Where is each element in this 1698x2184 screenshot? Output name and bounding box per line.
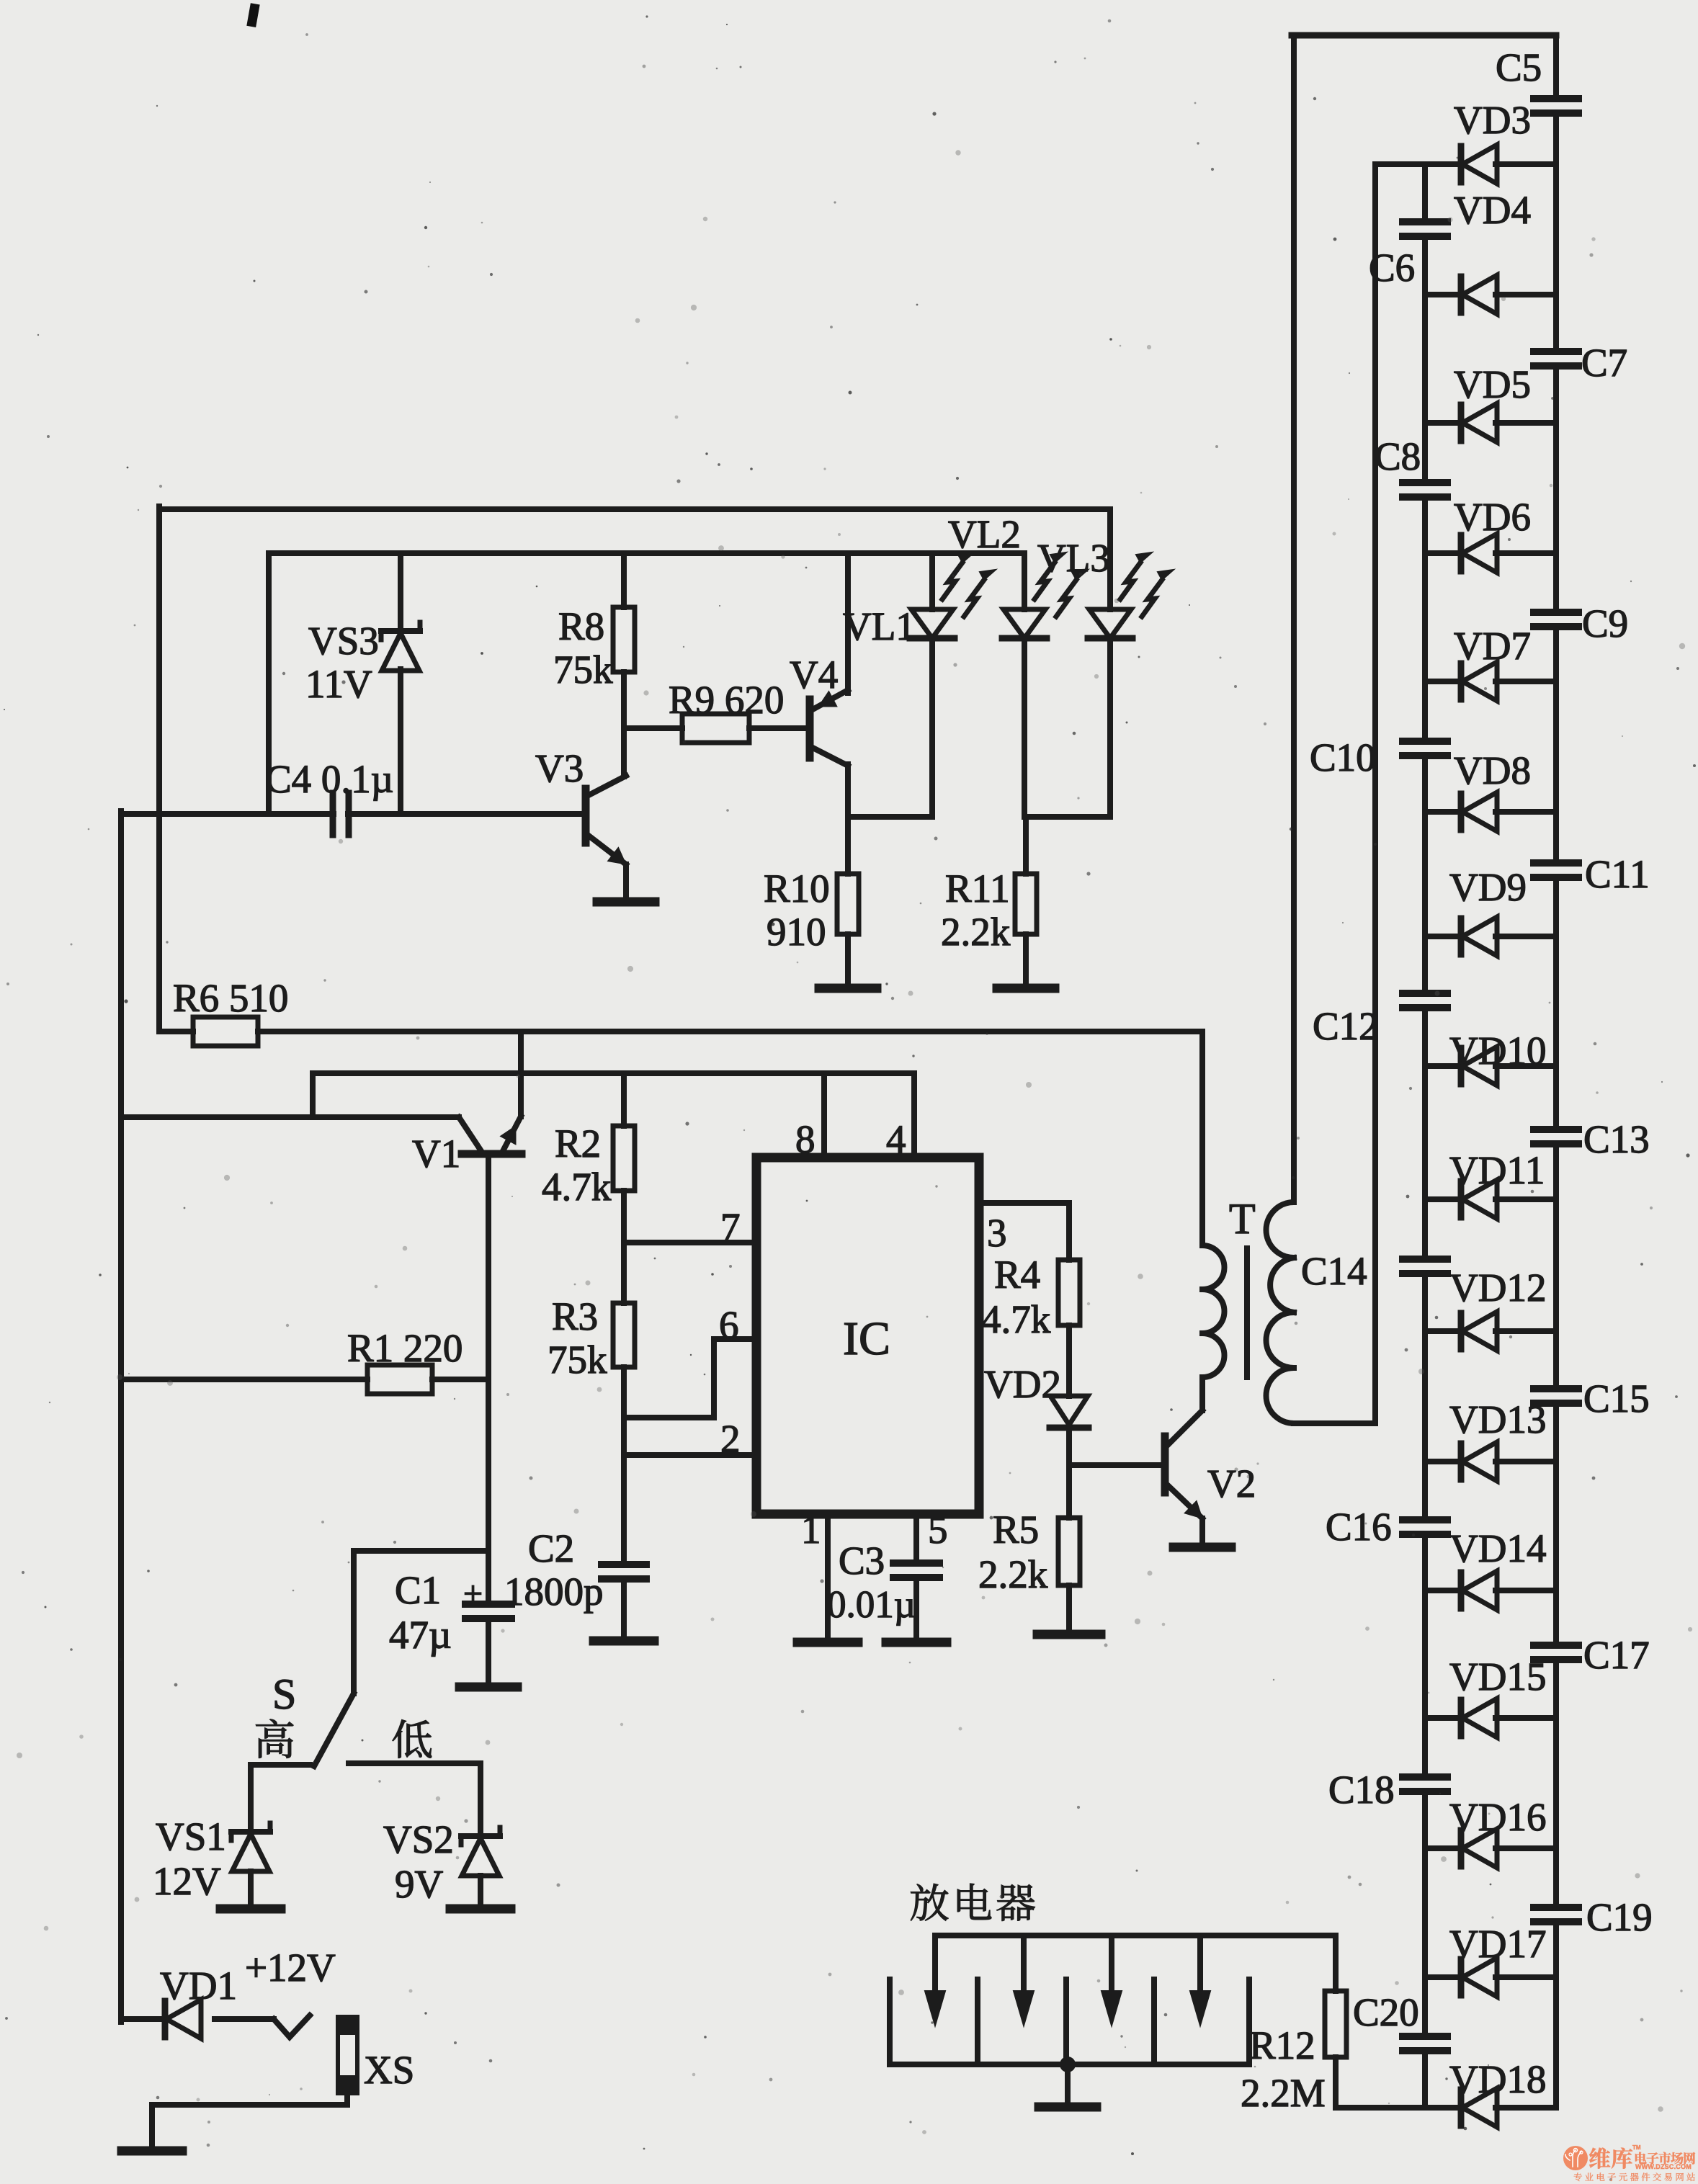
wire node to V2 base (y2034) xyxy=(1069,1462,1162,1468)
label R4 4.7k xyxy=(981,1253,1051,1341)
svg-text:C10: C10 xyxy=(1310,735,1376,779)
op-amp IC box xyxy=(756,1158,979,1514)
capacitor C14 xyxy=(1403,1259,1447,1274)
label C11 xyxy=(1585,852,1650,896)
pin 1 label xyxy=(801,1508,821,1552)
svg-text:VD16: VD16 xyxy=(1449,1795,1546,1839)
resistor R3 xyxy=(613,1303,635,1367)
capacitor C8 xyxy=(1403,483,1447,497)
svg-text:IC: IC xyxy=(843,1312,890,1365)
ground VS2 xyxy=(450,1905,511,1914)
wire primary top x1669 xyxy=(1199,1031,1205,1245)
svg-text:1: 1 xyxy=(801,1508,821,1552)
label C8 xyxy=(1375,434,1421,478)
label S xyxy=(272,1670,296,1718)
label VL3 xyxy=(1037,536,1110,580)
wire R10 top xyxy=(845,817,851,874)
label C10 xyxy=(1310,735,1376,779)
label VD11 xyxy=(1449,1148,1545,1192)
svg-text:C20: C20 xyxy=(1353,1990,1419,2034)
capacitor C6 xyxy=(1403,222,1447,236)
wire ladder top (y49) xyxy=(1292,32,1556,39)
label R8 75k xyxy=(553,604,613,692)
label VD1 xyxy=(160,1964,237,2008)
svg-text:C13: C13 xyxy=(1583,1117,1650,1161)
wire top feed to VL3 (y707) xyxy=(159,506,1110,512)
svg-text:VD12: VD12 xyxy=(1449,1266,1546,1310)
label R11 2.2k xyxy=(941,867,1011,954)
svg-text:V2: V2 xyxy=(1207,1462,1256,1505)
wire pin3 (y1670) xyxy=(979,1200,1069,1206)
led VL3 xyxy=(1088,552,1174,638)
wire secondary bottom xyxy=(1294,1420,1375,1426)
svg-text:VD2: VD2 xyxy=(984,1362,1061,1406)
label R10 910 xyxy=(764,867,830,954)
wire VS3-box left rail x373 xyxy=(266,553,272,814)
label V1 xyxy=(412,1132,460,1176)
label VD6 xyxy=(1454,495,1531,539)
label VS2 9V xyxy=(383,1817,454,1906)
wire ladder bottom (y2926) xyxy=(1336,2105,1556,2111)
label R5 2.2k xyxy=(978,1508,1048,1596)
wire pin5 stub xyxy=(913,1514,919,1563)
capacitor C9 xyxy=(1534,612,1578,627)
capacitor C1 xyxy=(463,1575,511,1619)
resistor R11 xyxy=(1015,874,1037,934)
svg-text:VD4: VD4 xyxy=(1454,188,1531,232)
wire VD16 row xyxy=(1425,1845,1556,1851)
wire XS to ground xyxy=(152,2093,347,2148)
label C4 0.1µ xyxy=(265,757,393,801)
wire VD9 row xyxy=(1425,934,1556,939)
svg-text:C14: C14 xyxy=(1301,1249,1367,1293)
wire VD8 row xyxy=(1425,809,1556,815)
scan mark top-left xyxy=(246,3,259,27)
wire VD12 row xyxy=(1425,1328,1556,1334)
label C12 xyxy=(1313,1004,1379,1048)
svg-text:C3: C3 xyxy=(839,1539,885,1583)
plug tip xyxy=(274,2015,310,2037)
svg-text:R11: R11 xyxy=(945,867,1010,910)
wire secondary top rail x1793 xyxy=(1291,35,1297,1202)
diode VD11 xyxy=(1461,1180,1497,1219)
diode VD15 xyxy=(1461,1699,1497,1737)
svg-text:6: 6 xyxy=(719,1303,739,1347)
resistor R5 xyxy=(1058,1518,1080,1585)
pin 3 label xyxy=(987,1211,1007,1255)
capacitor C16 xyxy=(1403,1520,1447,1534)
diode VD14 xyxy=(1461,1571,1497,1610)
svg-text:WWW.DZSC.COM: WWW.DZSC.COM xyxy=(1635,2163,1692,2170)
svg-text:R3: R3 xyxy=(552,1294,598,1338)
discharger arrows xyxy=(925,1935,1210,2026)
diode VD16 xyxy=(1461,1829,1497,1868)
capacitor C3 xyxy=(893,1563,939,1577)
resistor R12 xyxy=(1325,1991,1346,2057)
svg-text:R2: R2 xyxy=(555,1122,601,1165)
label XS xyxy=(364,2048,414,2092)
svg-text:S: S xyxy=(272,1670,296,1718)
svg-text:VD8: VD8 xyxy=(1454,748,1531,792)
wire right rail x2160 xyxy=(1553,35,1559,2108)
svg-text:TM: TM xyxy=(1632,2144,1641,2151)
wire VD15 row xyxy=(1425,1715,1556,1721)
wire VD13 row xyxy=(1425,1459,1556,1464)
label VD14 xyxy=(1449,1526,1546,1570)
svg-text:VD14: VD14 xyxy=(1449,1526,1546,1570)
switch S arm xyxy=(314,1693,354,1766)
diode VD3 xyxy=(1461,145,1497,184)
label 高 xyxy=(256,1719,293,1758)
diode VD17 xyxy=(1461,1958,1497,1997)
capacitor C10 xyxy=(1403,741,1447,756)
wire discharger bottom (y2866) xyxy=(890,2062,1249,2067)
diode VD4 xyxy=(1461,275,1497,314)
svg-text:VD11: VD11 xyxy=(1449,1148,1545,1192)
wire pin8 stub xyxy=(821,1073,827,1158)
resistor R2 xyxy=(613,1126,635,1191)
svg-text:T: T xyxy=(1229,1195,1256,1243)
wire VD11 row xyxy=(1425,1196,1556,1202)
svg-text:+12V: +12V xyxy=(245,1946,336,1990)
svg-text:C8: C8 xyxy=(1375,434,1421,478)
svg-text:C6: C6 xyxy=(1369,246,1415,290)
capacitor C13 xyxy=(1534,1129,1578,1144)
capacitor C19 xyxy=(1534,1907,1578,1922)
connector XS xyxy=(336,2015,359,2095)
label VD7 xyxy=(1454,624,1531,668)
label VD18 xyxy=(1449,2057,1546,2101)
wire R9 (y1011) xyxy=(624,725,810,731)
transformer T secondary winding xyxy=(1266,1202,1295,1423)
label C17 xyxy=(1583,1633,1650,1677)
label VD8 xyxy=(1454,748,1531,792)
label C16 xyxy=(1326,1505,1392,1549)
diode VD13 xyxy=(1461,1442,1497,1481)
svg-text:V4: V4 xyxy=(790,653,838,697)
label V4 xyxy=(790,653,838,697)
wire R11 bottom xyxy=(1023,934,1029,985)
wire V1 emitter rail x723 xyxy=(518,1031,524,1116)
wire VS1 bottom xyxy=(248,1871,254,1906)
led VL1 xyxy=(910,552,996,638)
label C13 xyxy=(1583,1117,1650,1161)
zener diode VS3 xyxy=(381,622,420,671)
capacitor C2 xyxy=(602,1565,646,1579)
wire R10 bottom xyxy=(845,934,851,985)
diode VD10 xyxy=(1461,1047,1497,1086)
label C20 xyxy=(1353,1990,1419,2034)
label VL1 xyxy=(843,604,916,648)
pin 4 label xyxy=(886,1117,906,1161)
label VD15 xyxy=(1449,1655,1546,1699)
resistor R8 xyxy=(613,607,635,672)
capacitor C5 xyxy=(1534,99,1578,113)
svg-text:C15: C15 xyxy=(1583,1377,1650,1420)
wire VD7 row xyxy=(1425,679,1556,684)
label IC xyxy=(843,1312,890,1365)
capacitor C15 xyxy=(1534,1389,1578,1403)
svg-text:C2: C2 xyxy=(528,1526,574,1570)
wire left rail x168 xyxy=(118,811,124,2022)
svg-text:7: 7 xyxy=(720,1205,741,1249)
wire VL1 anode xyxy=(929,553,935,609)
wire R6 (y1432) xyxy=(159,1029,1202,1034)
wire VL3 anode xyxy=(1107,509,1113,609)
wire contact high (y2450) xyxy=(251,1762,310,1768)
label C3 0.01µ xyxy=(827,1539,916,1626)
label VD3 xyxy=(1454,98,1531,142)
svg-text:R10: R10 xyxy=(764,867,830,910)
wire V1 base to C1 xyxy=(486,1379,491,1604)
label VD13 xyxy=(1449,1397,1546,1441)
ground V2 xyxy=(1174,1543,1231,1552)
resistor R1 xyxy=(367,1365,432,1394)
label C15 xyxy=(1583,1377,1650,1420)
wire pin2 (y2012) xyxy=(624,1452,756,1458)
label VS3 11V xyxy=(305,619,379,706)
svg-text:+: + xyxy=(463,1575,483,1613)
diode VD12 xyxy=(1461,1312,1497,1351)
wire R12 top xyxy=(1333,1935,1339,1991)
svg-text:R4: R4 xyxy=(994,1253,1040,1297)
wire R2-R3 xyxy=(621,1191,627,1303)
resistor R6 xyxy=(193,1017,258,1046)
transformer T core xyxy=(1244,1248,1250,1377)
label C9 xyxy=(1582,601,1628,645)
label C2 1800p xyxy=(504,1526,604,1614)
label 放电器 xyxy=(911,1884,1035,1921)
label VD16 xyxy=(1449,1795,1546,1839)
wire pin7 (y1725) xyxy=(624,1240,756,1245)
node discharger junction xyxy=(1060,2057,1076,2072)
label C6 xyxy=(1369,246,1415,290)
capacitor C7 xyxy=(1534,352,1578,366)
svg-text:12V: 12V xyxy=(153,1859,221,1903)
svg-text:C12: C12 xyxy=(1313,1004,1379,1048)
wire C3 bottom xyxy=(913,1577,919,1639)
transistor V4 xyxy=(810,553,848,817)
svg-text:VD7: VD7 xyxy=(1454,624,1531,668)
resistor R10 xyxy=(837,874,859,934)
label VD9 xyxy=(1449,865,1527,909)
pin 6 label xyxy=(719,1303,739,1347)
wire VD3 row (y228) xyxy=(1375,161,1556,167)
svg-text:C5: C5 xyxy=(1496,45,1542,89)
svg-text:C18: C18 xyxy=(1328,1768,1395,1812)
wire pin4 stub xyxy=(911,1073,917,1158)
svg-text:VS2: VS2 xyxy=(383,1817,454,1861)
label VL2 xyxy=(948,512,1021,556)
transistor V3 xyxy=(586,776,626,899)
pin 7 label xyxy=(720,1205,741,1249)
wire VD14 row xyxy=(1425,1588,1556,1593)
svg-text:5: 5 xyxy=(928,1508,948,1552)
diode VD6 xyxy=(1461,534,1497,573)
svg-text:910: 910 xyxy=(767,910,826,954)
svg-text:C1: C1 xyxy=(395,1568,441,1612)
svg-text:VD17: VD17 xyxy=(1449,1922,1546,1966)
wire R4 to VD2 xyxy=(1066,1325,1072,1396)
svg-text:VD6: VD6 xyxy=(1454,495,1531,539)
svg-text:R9 620: R9 620 xyxy=(669,678,784,722)
label +12V xyxy=(245,1946,336,1990)
svg-text:C17: C17 xyxy=(1583,1633,1650,1677)
svg-text:R5: R5 xyxy=(993,1508,1039,1552)
wire discharger top (y2687) xyxy=(935,1933,1336,1938)
svg-text:75k: 75k xyxy=(553,648,613,692)
capacitor C18 xyxy=(1403,1777,1447,1791)
wire VD5 row xyxy=(1425,420,1556,426)
wire VL3 cathode xyxy=(1107,638,1113,817)
label R3 75k xyxy=(548,1294,607,1382)
wire VD17 row xyxy=(1425,1974,1556,1980)
wire pin1 stub xyxy=(825,1514,831,1639)
svg-text:VL1: VL1 xyxy=(843,604,916,648)
wire to switch (y2153) xyxy=(354,1548,488,1554)
pin 8 label xyxy=(795,1117,816,1161)
label V2 xyxy=(1207,1462,1256,1505)
label R6 510 xyxy=(173,976,288,1020)
wire VD6 row xyxy=(1425,550,1556,556)
wire C2 bottom xyxy=(621,1579,627,1638)
label 低 xyxy=(393,1719,432,1758)
wire VD10 row xyxy=(1425,1063,1556,1069)
wire VS1 branch xyxy=(248,1765,254,1833)
capacitor C20 xyxy=(1403,2036,1447,2051)
svg-text:11V: 11V xyxy=(305,662,372,706)
label VD5 xyxy=(1454,362,1531,406)
wire R12 bottom xyxy=(1333,2057,1339,2108)
svg-text:3: 3 xyxy=(987,1211,1007,1255)
svg-text:VS1: VS1 xyxy=(156,1814,226,1858)
resistor R4 xyxy=(1058,1260,1080,1325)
wire left rail x221 xyxy=(156,506,162,1031)
wire VD1 (y2803) xyxy=(121,2016,274,2022)
wire V4 collector to VL1 (y1134) xyxy=(848,814,932,820)
svg-text:VD9: VD9 xyxy=(1449,865,1527,909)
svg-text:C16: C16 xyxy=(1326,1505,1392,1549)
ground C1 xyxy=(460,1683,517,1692)
wire discharger to ground xyxy=(1065,2064,1071,2104)
label V3 xyxy=(535,746,584,790)
label C19 xyxy=(1586,1895,1653,1939)
svg-text:C11: C11 xyxy=(1585,852,1650,896)
wire node to R5 xyxy=(1066,1465,1072,1518)
ground C2 xyxy=(594,1637,654,1646)
label C18 xyxy=(1328,1768,1395,1812)
diode VD18 xyxy=(1461,2088,1497,2127)
ground C3 xyxy=(886,1638,947,1647)
wire R11 top xyxy=(1023,817,1029,874)
wire C1 bottom xyxy=(486,1619,491,1684)
transistor V2 xyxy=(1165,1377,1202,1544)
wire R3 down to C2 xyxy=(621,1367,627,1565)
wire pin6 xyxy=(624,1339,756,1418)
led VL2 xyxy=(1002,552,1088,638)
svg-text:0.01µ: 0.01µ xyxy=(827,1584,916,1626)
svg-text:C19: C19 xyxy=(1586,1895,1653,1939)
svg-text:VD10: VD10 xyxy=(1449,1029,1546,1073)
ground pin1 xyxy=(797,1638,858,1647)
svg-text:V3: V3 xyxy=(535,746,584,790)
svg-text:75k: 75k xyxy=(548,1338,607,1382)
ground XS xyxy=(122,2147,182,2156)
wire switch riser x491 xyxy=(351,1551,357,1693)
svg-text:XS: XS xyxy=(364,2048,414,2092)
capacitor C11 xyxy=(1534,863,1578,877)
svg-text:4.7k: 4.7k xyxy=(542,1165,612,1209)
wire VD4 row xyxy=(1425,292,1556,297)
pin 2 label xyxy=(720,1417,741,1461)
diode VD1 xyxy=(165,2000,201,2038)
svg-text:4: 4 xyxy=(886,1117,906,1161)
wire pin3 down to R4 xyxy=(1066,1203,1072,1260)
svg-text:R8: R8 xyxy=(558,604,604,648)
watermark 维库电子市场网 xyxy=(1563,2144,1695,2181)
ground R5 xyxy=(1037,1630,1101,1639)
transistor V1 xyxy=(459,1116,522,1379)
svg-text:C4 0.1µ: C4 0.1µ xyxy=(265,757,393,801)
capacitor C4 xyxy=(333,793,349,835)
wire R8 branch x866 xyxy=(621,553,627,777)
label VD4 xyxy=(1454,188,1531,232)
wire VS2 branch xyxy=(478,1763,483,1838)
wire VL2 anode xyxy=(1022,553,1027,609)
diode VD5 xyxy=(1461,403,1497,442)
label R9 620 xyxy=(669,678,784,722)
svg-text:VD1: VD1 xyxy=(160,1964,237,2008)
wire R5 bottom xyxy=(1066,1585,1072,1632)
svg-text:C9: C9 xyxy=(1582,601,1628,645)
diode VD7 xyxy=(1461,662,1497,701)
resistor R9 xyxy=(682,714,749,743)
pin 5 label xyxy=(928,1508,948,1552)
label R2 4.7k xyxy=(542,1122,612,1209)
diode VD9 xyxy=(1461,917,1497,956)
discharger electrodes xyxy=(890,1979,1249,2064)
diode VD8 xyxy=(1461,792,1497,831)
capacitor C12 xyxy=(1403,993,1447,1008)
svg-text:R12: R12 xyxy=(1249,2023,1315,2067)
svg-text:VL3: VL3 xyxy=(1037,536,1110,580)
svg-text:47µ: 47µ xyxy=(389,1613,452,1657)
capacitor C17 xyxy=(1534,1645,1578,1660)
zener diode VS2 xyxy=(461,1827,500,1876)
wire to V1 collector (y1551) xyxy=(121,1114,459,1120)
ground discharger xyxy=(1039,2103,1096,2112)
wire VD2 to node xyxy=(1066,1428,1072,1465)
zener diode VS1 xyxy=(231,1823,270,1871)
svg-text:8: 8 xyxy=(795,1117,816,1161)
wire R1 (y1915) xyxy=(121,1377,488,1382)
wire IC supply (y1490) xyxy=(313,1070,914,1076)
label C1 47µ xyxy=(389,1568,452,1657)
svg-text:VL2: VL2 xyxy=(948,512,1021,556)
label R1 220 xyxy=(347,1326,463,1370)
svg-text:9V: 9V xyxy=(395,1862,444,1906)
svg-text:2: 2 xyxy=(720,1417,741,1461)
svg-text:2.2M: 2.2M xyxy=(1241,2071,1326,2115)
wire x434 riser xyxy=(310,1073,316,1117)
label VD12 xyxy=(1449,1266,1546,1310)
label C14 xyxy=(1301,1249,1367,1293)
ground VS1 xyxy=(220,1905,281,1914)
svg-text:4.7k: 4.7k xyxy=(981,1297,1051,1341)
diode VD2 xyxy=(1050,1396,1089,1428)
label C5 xyxy=(1496,45,1542,89)
wire VS2 bottom xyxy=(478,1876,483,1906)
